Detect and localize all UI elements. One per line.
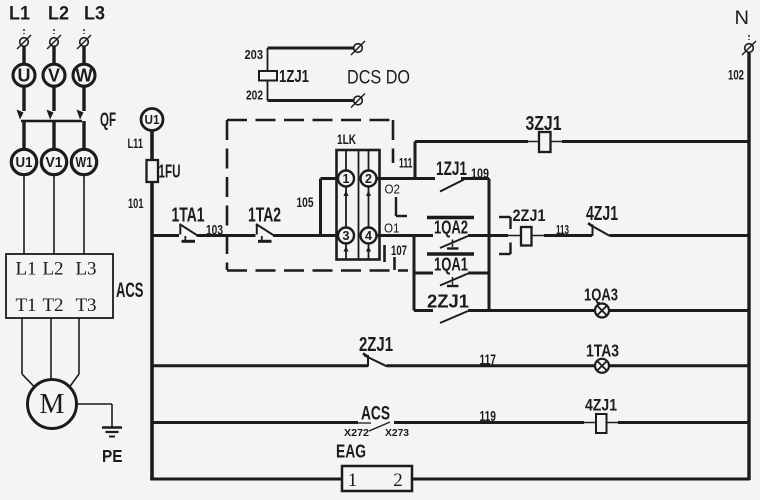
svg-text:117: 117 [480,353,497,369]
svg-text:105: 105 [297,194,314,210]
svg-text:111: 111 [399,156,413,171]
svg-text:101: 101 [128,195,144,211]
svg-text:1: 1 [348,470,358,491]
svg-text:3ZJ1: 3ZJ1 [526,113,562,135]
svg-text:1TA1: 1TA1 [172,204,205,226]
svg-text:L1: L1 [9,4,30,25]
svg-text:2ZJ1: 2ZJ1 [427,291,469,312]
svg-text:2: 2 [393,470,403,491]
svg-text:W: W [76,66,93,86]
svg-text:U: U [18,66,31,86]
svg-text:X273: X273 [385,427,409,439]
svg-text:203: 203 [245,48,264,62]
svg-text:U1: U1 [16,154,33,171]
svg-text:QF: QF [100,110,116,131]
svg-text:PE: PE [102,446,123,466]
svg-text:109: 109 [471,165,489,181]
svg-text:1ZJ1: 1ZJ1 [436,159,467,180]
svg-text:202: 202 [246,89,263,103]
svg-text:T2: T2 [42,295,63,316]
svg-text:U1: U1 [145,112,160,127]
svg-text:1QA2: 1QA2 [434,216,468,237]
svg-text:V: V [48,66,60,86]
svg-text:4ZJ1: 4ZJ1 [586,203,618,225]
svg-text:1LK: 1LK [337,131,356,147]
svg-text:2ZJ1: 2ZJ1 [513,207,546,225]
svg-text:W1: W1 [76,154,93,171]
svg-text:O1: O1 [384,221,400,236]
svg-text:2: 2 [365,172,372,186]
svg-text:2ZJ1: 2ZJ1 [359,334,393,356]
svg-text:107: 107 [391,242,407,258]
svg-text:1QA1: 1QA1 [434,253,468,274]
svg-text:L2: L2 [42,259,63,280]
svg-text:4ZJ1: 4ZJ1 [585,396,617,415]
svg-text:L3: L3 [84,4,105,25]
svg-text:M: M [40,389,65,420]
svg-text:113: 113 [556,223,569,237]
svg-text:X272: X272 [344,427,369,439]
svg-text:1ZJ1: 1ZJ1 [279,66,309,86]
svg-text:1QA3: 1QA3 [584,285,618,305]
svg-text:102: 102 [728,68,744,83]
svg-text:103: 103 [206,222,223,238]
svg-text:ACS: ACS [116,278,144,302]
svg-text:L2: L2 [48,4,69,25]
svg-text:L3: L3 [75,259,96,280]
svg-text:N: N [735,7,750,29]
svg-text:ACS: ACS [361,403,390,425]
svg-text:EAG: EAG [336,442,366,462]
svg-text:119: 119 [480,409,497,425]
svg-text:1TA2: 1TA2 [248,204,281,226]
svg-text:1TA3: 1TA3 [586,341,619,361]
svg-text:4: 4 [365,229,372,243]
svg-text:L11: L11 [128,136,144,151]
svg-text:T3: T3 [75,295,96,316]
svg-text:1FU: 1FU [159,162,181,182]
svg-text:V1: V1 [46,154,63,171]
svg-text:1: 1 [343,172,350,186]
svg-text:T1: T1 [15,295,36,316]
svg-text:O2: O2 [385,182,401,197]
svg-text:DCS DO: DCS DO [347,67,410,89]
svg-text:3: 3 [343,229,350,243]
svg-text:L1: L1 [15,259,36,280]
